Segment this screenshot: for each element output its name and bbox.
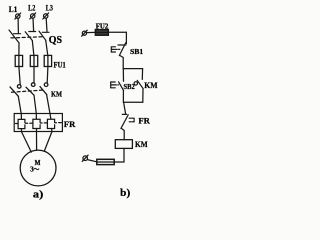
wire L1 to QS: [17, 18, 19, 33]
wire terminal to FU2: [87, 31, 96, 33]
wire QS2 to FU1-2: [32, 41, 34, 56]
wire FR1 to motor: [21, 132, 31, 153]
wire rejoin down to FR contact: [124, 102, 126, 114]
control circuit terminal (bottom): [82, 155, 88, 161]
fuse (bottom): [97, 159, 114, 164]
svg-text:M: M: [35, 160, 41, 167]
fuse FU1 pole 2: [30, 55, 37, 66]
switch QS pole 2: [25, 32, 35, 41]
svg-text:a): a): [33, 189, 44, 201]
contactor KM main contact 1: [10, 85, 21, 97]
wire SB2 to rejoin: [122, 91, 124, 103]
fuse FU1 pole 3: [44, 55, 51, 66]
wire L2 to QS: [32, 18, 35, 31]
QS mechanical link (dashed): [11, 37, 44, 38]
fuse FU2: [95, 30, 108, 36]
wire SB1 to junction: [120, 56, 123, 69]
wire KM2 to FR box: [34, 95, 36, 113]
wire FR3 to motor: [44, 132, 52, 152]
terminal L2: [30, 13, 36, 19]
rejoin wire (bottom horizontal): [123, 101, 142, 103]
wire FU1-3 to KM3: [46, 67, 49, 83]
terminal L1: [15, 13, 21, 19]
wire QS1 to FU1-1: [18, 43, 20, 56]
wire FR2 to motor: [36, 132, 38, 151]
wire FU1-1 to KM1: [19, 67, 20, 85]
thermal relay FR contact (NC): [121, 114, 134, 128]
svg-text:FR: FR: [138, 117, 150, 126]
svg-text:FU1: FU1: [54, 61, 66, 70]
svg-text:QS: QS: [49, 35, 63, 46]
pushbutton SB2 (start, NO): [111, 82, 124, 91]
wire KM coil down to corner: [123, 148, 125, 162]
svg-text:L3: L3: [46, 4, 53, 13]
switch QS pole 3: [39, 31, 49, 40]
terminal L3: [43, 13, 49, 19]
contactor KM auxiliary contact: [134, 80, 143, 88]
coil KM: [115, 140, 132, 149]
wire L3 to QS: [45, 18, 48, 31]
FR internal link (dashed): [16, 122, 62, 125]
contactor KM main contact 2: [26, 83, 35, 95]
svg-text:b): b): [120, 188, 130, 199]
FR heater element 2: [33, 114, 40, 132]
wire QS3 to FU1-3: [46, 40, 48, 55]
KM mechanical link (dashed): [12, 90, 45, 92]
contactor KM main contact 3: [40, 83, 48, 95]
junction branch wire (top horizontal): [123, 68, 142, 70]
wire FR contact to KM coil: [121, 128, 124, 139]
svg-text:KM: KM: [144, 81, 157, 90]
svg-text:SB2: SB2: [124, 82, 136, 91]
wire KM aux to rejoin: [142, 89, 144, 103]
fuse FU1 pole 1: [15, 55, 22, 66]
control circuit terminal (top): [82, 30, 88, 36]
svg-text:L2: L2: [28, 4, 35, 13]
svg-text:KM: KM: [135, 140, 148, 149]
wire KM3 to FR box: [47, 95, 50, 114]
FR heater element 3: [47, 114, 54, 132]
pushbutton SB1 (stop, NC): [111, 43, 126, 56]
motor M circle: [20, 150, 56, 186]
wire FU1-2 to KM2: [33, 67, 35, 83]
wire branch down to KM aux: [141, 69, 143, 80]
thermal relay FR box: [14, 114, 62, 132]
svg-text:SB1: SB1: [130, 47, 144, 56]
wire corner down to SB1: [125, 32, 127, 43]
wire KM1 to FR box: [18, 96, 21, 113]
svg-text:L1: L1: [9, 5, 18, 14]
wire fuse to bottom terminal: [87, 160, 96, 162]
wire junction down to SB2: [122, 69, 124, 82]
FR heater element 1: [18, 114, 25, 132]
svg-text:FR: FR: [64, 120, 76, 129]
wire corner to bottom fuse: [114, 161, 124, 163]
switch QS pole 1: [9, 30, 21, 43]
svg-text:KM: KM: [51, 90, 63, 99]
wire FU2 to corner: [108, 31, 126, 33]
